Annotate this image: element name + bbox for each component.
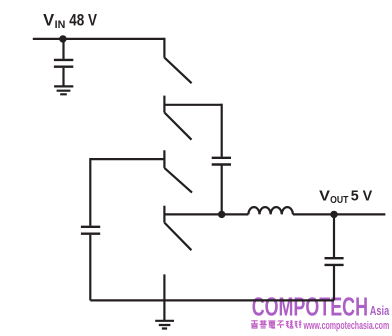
capacitor C1 bottom lead bbox=[221, 166, 223, 215]
node VOUT junction dot bbox=[330, 211, 337, 218]
wire VIN rail bbox=[33, 38, 165, 40]
switch S4 terminal stub bbox=[163, 206, 165, 223]
switch S3 terminal stub bbox=[163, 150, 165, 168]
wire node1 tap to C1 bbox=[164, 104, 221, 106]
label VOUT 5 V bbox=[319, 187, 372, 206]
switch S1 blade bbox=[164, 58, 191, 84]
capacitor COUT top lead bbox=[333, 214, 335, 257]
svg-text:COMPOTECH: COMPOTECH bbox=[252, 291, 368, 321]
capacitor C2 plates bbox=[81, 227, 100, 234]
switch S2 blade bbox=[164, 113, 191, 140]
capacitor C1 top lead bbox=[221, 104, 223, 157]
capacitor COUT plates bbox=[325, 258, 344, 265]
switch S1 top terminal bbox=[163, 38, 165, 58]
watermark COMPOTECH logo bbox=[252, 291, 390, 321]
capacitor CIN plates bbox=[54, 60, 73, 67]
capacitor C1 plates bbox=[212, 158, 231, 165]
capacitor CIN top lead bbox=[62, 39, 64, 59]
ground GND2 bbox=[155, 321, 174, 329]
switch S4 blade bbox=[164, 223, 191, 251]
svg-text:5 V: 5 V bbox=[351, 187, 373, 204]
wire node2 tap to C2 bbox=[90, 158, 164, 160]
watermark tagline CJK glyph shapes (智慧電子設計) bbox=[251, 320, 301, 328]
svg-text:www.compotechasia.com: www.compotechasia.com bbox=[303, 320, 389, 332]
switch S3 blade bbox=[164, 168, 192, 193]
svg-text:48 V: 48 V bbox=[69, 12, 97, 30]
capacitor CIN bottom lead bbox=[62, 68, 64, 87]
wire SW to inductor bbox=[222, 213, 249, 215]
svg-text:V: V bbox=[43, 12, 54, 30]
capacitor COUT bottom lead bbox=[333, 266, 335, 301]
switch S2 terminal stub bbox=[163, 96, 165, 113]
node VIN junction dot bbox=[59, 35, 66, 42]
label VIN 48 V bbox=[43, 12, 97, 32]
inductor L1 bbox=[248, 207, 292, 214]
wire bottom rail bbox=[90, 299, 334, 301]
capacitor C2 bottom lead bbox=[89, 235, 91, 301]
svg-text:OUT: OUT bbox=[330, 195, 348, 206]
ground GND1 bbox=[54, 86, 73, 94]
svg-text:Asia: Asia bbox=[370, 303, 390, 318]
svg-text:IN: IN bbox=[55, 19, 66, 31]
wire inductor to VOUT bbox=[293, 213, 386, 215]
svg-text:V: V bbox=[319, 187, 330, 204]
watermark url www.compotechasia.com bbox=[303, 320, 389, 332]
node SW junction dot bbox=[218, 211, 225, 218]
wire ground stub bbox=[163, 274, 165, 320]
capacitor C2 top lead bbox=[89, 158, 91, 226]
wire SW node tap bbox=[164, 213, 221, 215]
